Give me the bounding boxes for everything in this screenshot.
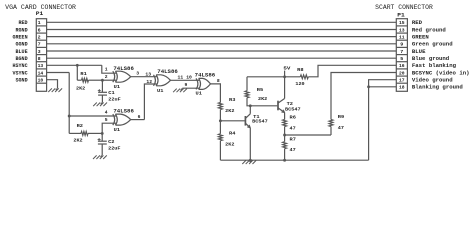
wire R7 top lead — [284, 135, 286, 142]
wire HSYNC down to U1A pin 1 — [102, 65, 116, 73]
wire into U1A pin 2 — [102, 79, 116, 81]
wire R3 to base node — [219, 110, 221, 121]
svg-text:13: 13 — [399, 27, 405, 33]
ground below C1 — [101, 102, 103, 104]
node T1 collector junction — [249, 104, 252, 107]
wire C2 bottom lead — [101, 144, 103, 155]
svg-text:5: 5 — [400, 56, 403, 62]
wire R1 branch down — [76, 65, 78, 80]
svg-text:9: 9 — [400, 42, 403, 48]
svg-text:BLUE: BLUE — [412, 48, 426, 55]
capacitor C2 — [98, 140, 107, 142]
ground at SGND — [56, 88, 58, 90]
svg-text:74LS86: 74LS86 — [157, 69, 178, 75]
resistor R1 — [82, 78, 89, 82]
capacitor C1 — [98, 91, 107, 93]
svg-text:Blanking ground: Blanking ground — [412, 84, 463, 91]
svg-text:BGND: BGND — [16, 56, 28, 62]
wire SCART grounds down to rail — [368, 87, 370, 160]
svg-text:11: 11 — [399, 35, 405, 41]
wire SCART pin18 (blanking ground) — [369, 86, 397, 88]
resistor R7 — [283, 142, 287, 149]
C2 plus mark — [98, 139, 101, 141]
svg-text:R8: R8 — [297, 67, 304, 73]
svg-text:GREEN: GREEN — [13, 34, 28, 40]
transistor T2 BC547 — [277, 101, 279, 111]
svg-text:U1: U1 — [114, 127, 121, 133]
svg-text:14: 14 — [38, 70, 44, 76]
node R3/R4/T1 base junction — [219, 119, 222, 122]
wire up into U1B pin 5 — [102, 123, 116, 133]
svg-text:C2: C2 — [108, 139, 115, 145]
wire ground rail — [220, 159, 368, 161]
svg-text:Blue ground: Blue ground — [412, 55, 449, 62]
svg-text:2K2: 2K2 — [76, 85, 85, 91]
wire R1 right lead to node — [89, 79, 103, 81]
svg-text:8: 8 — [38, 56, 41, 62]
ground symbol on rail — [250, 160, 252, 162]
wire RED net (VGA pin 1 to SCART pin 15) — [47, 21, 397, 23]
resistor R3 — [219, 103, 223, 110]
wire R2 left lead — [69, 132, 81, 134]
wire T1 emitter down — [249, 128, 251, 160]
node pin17/pin18 junction — [367, 85, 370, 88]
svg-text:HSYNC: HSYNC — [13, 63, 28, 69]
svg-text:11: 11 — [178, 75, 184, 81]
ground at U1D pin 9 — [181, 88, 183, 90]
svg-text:Fast blanking: Fast blanking — [412, 62, 457, 69]
svg-text:VSYNC: VSYNC — [13, 70, 28, 76]
node R2/C2/U1B pin5 junction — [101, 132, 104, 135]
wire riser to U1C pin 12 — [144, 84, 156, 120]
wire SCART pin17 hook — [369, 80, 397, 87]
svg-text:8: 8 — [217, 78, 220, 84]
svg-text:2: 2 — [105, 74, 108, 80]
wire R2 right lead to node — [88, 132, 102, 134]
wire R5 top from 5V rail — [246, 77, 248, 91]
wire T2 collector to 5V rail — [284, 77, 286, 99]
wire node A to R9 — [285, 134, 331, 136]
wire base node to T1 — [220, 120, 244, 122]
svg-text:15: 15 — [399, 20, 405, 26]
wire VSYNC from VGA pin 14 — [47, 72, 70, 74]
svg-text:2K2: 2K2 — [258, 96, 267, 102]
node R1/C1/U1A pin2 junction — [101, 79, 104, 82]
op gate U1D 74LS86 XOR — [196, 78, 198, 89]
svg-text:BCSYNC (video in): BCSYNC (video in) — [412, 69, 470, 76]
svg-text:10: 10 — [186, 75, 192, 81]
ground below C2 — [100, 155, 102, 157]
svg-text:22uF: 22uF — [108, 97, 121, 103]
svg-text:R3: R3 — [229, 97, 236, 103]
node A junction R6/R7/R9 — [283, 134, 286, 137]
svg-text:RED: RED — [412, 19, 423, 26]
resistor R8 — [300, 75, 308, 79]
svg-text:T2: T2 — [287, 101, 294, 107]
op gate U1B 74LS86 XOR — [113, 114, 115, 125]
wire R8 to SCART pin 16 (fast blanking) — [308, 65, 396, 77]
svg-text:P1: P1 — [36, 11, 44, 17]
connector P1 SCART body — [396, 19, 407, 92]
wire BGND net (VGA pin 8 to SCART pin 5) — [47, 57, 397, 59]
node T1 emitter on rail — [249, 159, 252, 162]
svg-text:22uF: 22uF — [108, 146, 121, 152]
svg-text:U1: U1 — [196, 91, 203, 97]
svg-text:120: 120 — [295, 81, 304, 87]
svg-text:4: 4 — [105, 110, 108, 116]
wire R1 left lead — [77, 79, 81, 81]
C1 plus mark — [98, 90, 101, 92]
wire R4 top lead — [219, 121, 221, 134]
wire SGND from VGA pin 10 — [47, 80, 58, 88]
svg-text:74LS86: 74LS86 — [113, 66, 133, 72]
svg-text:74LS86: 74LS86 — [195, 73, 216, 79]
wire GGND net (VGA pin 7 to SCART pin 9) — [47, 43, 397, 45]
svg-text:BC547: BC547 — [252, 119, 268, 125]
wire T1 collector up — [249, 106, 251, 114]
svg-text:RGND: RGND — [16, 27, 28, 33]
wire R4 to ground rail — [219, 141, 221, 161]
resistor R4 — [219, 134, 223, 141]
wire RGND net (VGA pin 6 to SCART pin 13) — [47, 29, 397, 31]
svg-text:R6: R6 — [290, 114, 297, 120]
wire R9 bottom lead — [330, 127, 332, 136]
connector P1 VGA body — [36, 19, 46, 92]
node 5V junction — [283, 75, 286, 78]
resistor R5 — [245, 91, 249, 98]
wire BLUE net (VGA pin 3 to SCART pin 7) — [47, 50, 397, 52]
svg-text:R1: R1 — [80, 71, 87, 77]
svg-text:7: 7 — [38, 42, 41, 48]
wire R2 branch down — [68, 116, 70, 133]
node VSYNC/R2 junction — [68, 115, 71, 118]
op gate U1C 74LS86 XOR — [154, 75, 156, 86]
wire R5 bottom to node C — [247, 98, 277, 106]
svg-text:R2: R2 — [77, 123, 84, 129]
svg-text:9: 9 — [185, 82, 188, 88]
svg-text:2K2: 2K2 — [73, 137, 82, 143]
svg-text:3: 3 — [136, 70, 139, 76]
svg-text:47: 47 — [290, 125, 296, 131]
svg-text:C1: C1 — [108, 90, 115, 96]
svg-text:74LS86: 74LS86 — [113, 108, 133, 114]
svg-text:47: 47 — [290, 147, 296, 153]
svg-text:17: 17 — [399, 78, 405, 84]
wire T2 emitter to R6 — [284, 113, 286, 120]
svg-text:Video ground: Video ground — [412, 77, 453, 84]
wire C1 bottom lead — [101, 95, 103, 102]
svg-text:2K2: 2K2 — [225, 108, 234, 114]
wire U1B pin6 output — [131, 119, 145, 121]
svg-text:GGND: GGND — [16, 42, 28, 48]
svg-text:2K2: 2K2 — [225, 142, 234, 148]
svg-text:6: 6 — [38, 27, 41, 33]
svg-text:U1: U1 — [157, 88, 164, 94]
svg-text:VGA CARD CONNECTOR: VGA CARD CONNECTOR — [5, 4, 76, 11]
svg-text:2: 2 — [38, 35, 41, 41]
wire U1D pin8 output — [211, 84, 221, 103]
power 5V stem — [284, 71, 286, 77]
svg-text:13: 13 — [145, 71, 151, 77]
svg-text:SCART CONNECTOR: SCART CONNECTOR — [375, 4, 433, 11]
svg-text:5: 5 — [105, 117, 108, 123]
svg-text:10: 10 — [38, 78, 44, 84]
op gate U1A 74LS86 XOR — [113, 71, 115, 82]
resistor R2 — [81, 132, 88, 136]
node R7 on rail — [283, 159, 286, 162]
wire C1 top lead — [101, 80, 103, 92]
svg-text:47: 47 — [338, 125, 344, 131]
svg-text:BC547: BC547 — [285, 106, 301, 112]
node HSYNC junction — [76, 64, 79, 67]
svg-text:R4: R4 — [229, 131, 236, 137]
svg-text:U1: U1 — [114, 84, 121, 90]
wire U1A pin3 output — [131, 76, 157, 78]
svg-text:16: 16 — [399, 63, 405, 69]
svg-text:BLUE: BLUE — [16, 49, 28, 55]
svg-text:12: 12 — [146, 79, 152, 85]
wire 5V rail left — [247, 76, 300, 78]
svg-text:SGND: SGND — [16, 78, 28, 84]
wire VSYNC down to U1B pin 4 — [69, 73, 116, 117]
svg-text:1: 1 — [38, 20, 41, 26]
svg-text:RED: RED — [19, 20, 28, 26]
svg-text:Green ground: Green ground — [412, 41, 453, 48]
wire R7 to ground rail — [284, 149, 286, 161]
svg-text:3: 3 — [38, 49, 41, 55]
wire GREEN net (VGA pin 2 to SCART pin 11) — [47, 36, 397, 38]
svg-text:13: 13 — [38, 63, 44, 69]
svg-text:R9: R9 — [338, 114, 345, 120]
wire R9 to SCART pin 20 (composite video) — [331, 73, 396, 120]
wire U1D pin9 to ground — [182, 87, 199, 89]
transistor T1 BC547 — [244, 116, 246, 126]
svg-text:6: 6 — [138, 114, 141, 120]
svg-text:GREEN: GREEN — [412, 34, 429, 41]
svg-text:Red ground: Red ground — [412, 26, 446, 33]
resistor R9 — [329, 120, 333, 127]
svg-text:R7: R7 — [290, 137, 297, 143]
wire HSYNC from VGA pin 13 — [47, 64, 102, 66]
wire R6 to node A — [284, 127, 286, 136]
svg-text:18: 18 — [399, 85, 405, 91]
svg-text:5V: 5V — [283, 65, 290, 71]
svg-text:20: 20 — [399, 70, 405, 76]
svg-text:R5: R5 — [257, 87, 264, 93]
wire U1C pin11 output — [171, 79, 200, 81]
resistor R6 — [283, 120, 287, 127]
svg-text:1: 1 — [105, 67, 108, 73]
wire C2 top lead — [101, 133, 103, 141]
svg-text:7: 7 — [400, 49, 403, 55]
svg-text:P1: P1 — [397, 12, 405, 18]
